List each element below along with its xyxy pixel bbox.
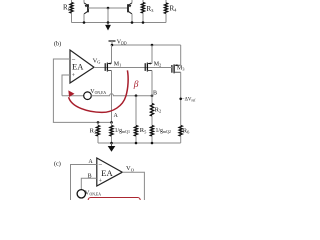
wire output VO (122, 172, 144, 200)
resistor 1/gmQ2 (150, 126, 171, 144)
resistor R3 (panel a) (141, 0, 154, 23)
svg-text:R5: R5 (140, 127, 147, 134)
resistor R6 (179, 126, 190, 144)
svg-text:(b): (b) (54, 41, 61, 48)
gate stub M3 (167, 67, 172, 69)
svg-text:(c): (c) (54, 161, 61, 168)
svg-text:R3: R3 (90, 128, 97, 135)
pmos M1 (105, 45, 121, 122)
svg-text:M1: M1 (114, 61, 121, 67)
pmos M3 (172, 45, 185, 126)
svg-text:VON,EA: VON,EA (90, 89, 106, 96)
VDD rail (112, 44, 181, 46)
node: base tap junction (107, 7, 110, 10)
svg-text:R2: R2 (155, 106, 162, 113)
VDD supply symbol (109, 40, 127, 46)
feedback arc beta (red) (69, 70, 129, 112)
resistor 1/gmQ1 (110, 122, 130, 143)
junction dots on rail (83, 21, 86, 24)
svg-text:A: A (114, 113, 119, 119)
op-amp EA (c) (97, 158, 123, 186)
wire EA- input (53, 59, 70, 122)
svg-text:B: B (88, 173, 92, 179)
resistor R4 (164, 0, 177, 23)
svg-text:1/gmQ1: 1/gmQ1 (115, 128, 130, 134)
svg-text:R3: R3 (147, 5, 155, 13)
svg-text:β: β (133, 80, 139, 90)
transistor Q2 (PNP, right) (128, 0, 132, 23)
node R5 top junction (135, 94, 138, 97)
offset source VON,EA (b) (84, 92, 92, 100)
svg-text:R4: R4 (170, 5, 178, 13)
ground bus (b) (98, 142, 181, 144)
wire EA+ input (62, 75, 70, 96)
resistor R2 (150, 96, 161, 126)
svg-text:−: − (72, 56, 76, 64)
svg-text:−ΔVref: −ΔVref (182, 98, 196, 103)
resistor R5 (134, 96, 147, 143)
resistor R1 (63, 0, 73, 23)
svg-text:A: A (88, 159, 93, 165)
ground (a) (105, 23, 111, 31)
wire + to offset source (62, 95, 84, 97)
op-amp EA (b) (70, 50, 94, 83)
bottom rail (a) (72, 22, 167, 24)
wire input B (81, 178, 97, 189)
svg-text:M2: M2 (154, 61, 161, 67)
svg-text:B: B (153, 90, 157, 96)
wire base tap down (107, 8, 109, 23)
svg-text:VO: VO (126, 165, 134, 172)
svg-text:VON,EA: VON,EA (85, 190, 101, 198)
wire input A (71, 165, 97, 201)
wire node B with hop over M1 drain (91, 94, 152, 96)
svg-text:+: + (72, 73, 76, 79)
svg-text:VG: VG (93, 57, 102, 64)
svg-text:−: − (98, 161, 102, 169)
base wire Q1-Q2 (88, 7, 128, 9)
offset source VON,EA (c) (77, 190, 85, 198)
pmos M2 (145, 45, 161, 96)
gate bus wire (94, 67, 172, 69)
node A wire (53, 121, 112, 123)
svg-text:EA: EA (101, 168, 113, 178)
red arrowhead (68, 90, 74, 97)
svg-text:M3: M3 (177, 65, 184, 71)
transistor Q1 (PNP, mirrored left) (84, 0, 88, 23)
ground (b) (108, 143, 116, 152)
red highlight box (cut off) (88, 198, 140, 210)
svg-text:R6: R6 (183, 127, 190, 134)
node -dVref (179, 98, 182, 101)
resistor R3 (b) (90, 122, 100, 143)
svg-text:1/gmQ2: 1/gmQ2 (156, 128, 171, 134)
